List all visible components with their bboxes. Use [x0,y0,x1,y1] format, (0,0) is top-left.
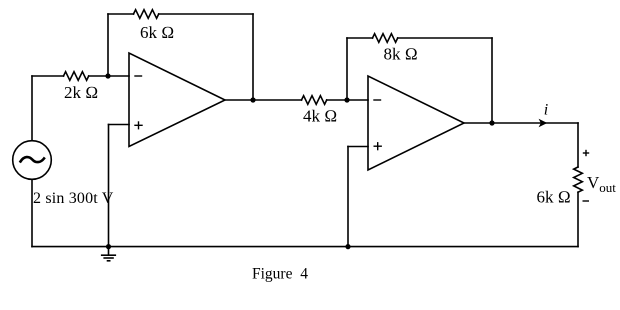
wire source vertical upper [31,76,33,141]
op-amp U1 plus sign [135,122,142,129]
wire U1 output to 4k [225,99,302,101]
voltage source VS sine tilde [21,157,45,162]
svg-text:2k Ω: 2k Ω [64,83,98,102]
resistor R5 6k ohm load [574,167,583,192]
resistor R3 4k ohm [302,96,327,105]
node U2 ground junction dot [345,244,350,249]
wire U1 noninverting input vertical to ground rail [108,125,110,247]
resistor R1 2k ohm [64,72,89,81]
node U1 output junction dot [250,97,255,102]
wire feedback2 top left segment [347,37,373,39]
wire 2k to op-amp U1 inverting input [89,75,129,77]
wire feedback right vertical [252,14,254,100]
current arrow i [539,119,548,127]
svg-text:6k Ω: 6k Ω [140,23,174,42]
wire right branch lower [577,192,579,246]
svg-text:8k Ω: 8k Ω [384,45,418,64]
node ground junction dot [106,244,111,249]
svg-text:4k Ω: 4k Ω [303,106,337,125]
svg-text:Figure 4: Figure 4 [252,266,308,283]
wire right branch upper [577,123,579,167]
op-amp U2 plus sign [374,143,381,150]
label minus polarity Vout [583,200,590,202]
voltage source VS circle [13,141,52,180]
svg-text:6k Ω: 6k Ω [537,188,571,207]
wire 4k to op-amp U2 inverting input [327,99,368,101]
wire feedback top right segment [159,13,253,15]
node A junction dot inverting input U1 [105,73,110,78]
op-amp U1 triangle [129,53,225,147]
node B junction dot inverting input U2 [344,97,349,102]
wire U1 noninverting input horizontal [109,124,130,126]
svg-text:2 sin 300t V: 2 sin 300t V [33,190,114,207]
ground symbol [102,247,116,261]
wire feedback2 left vertical [346,38,348,100]
op-amp U2 triangle [368,76,464,170]
svg-text:i: i [544,102,548,119]
op-amp U1 minus sign [135,75,142,77]
wire U2 noninverting input horizontal [348,146,368,148]
wire feedback2 right vertical [491,38,493,123]
resistor R2 6k ohm feedback [134,10,159,19]
wire source vertical lower [31,180,33,247]
wire bottom ground rail [32,246,578,248]
node U2 output junction dot [489,120,494,125]
label plus polarity Vout [583,150,589,156]
wire feedback left vertical [107,14,109,76]
wire U2 output [464,122,578,124]
wire feedback top left segment [108,13,134,15]
wire feedback2 top right segment [398,37,492,39]
resistor R4 8k ohm feedback [373,34,398,43]
op-amp U2 minus sign [374,99,381,101]
wire U2 noninverting input vertical to ground rail [347,147,349,247]
wire source to 2k resistor [32,75,64,77]
